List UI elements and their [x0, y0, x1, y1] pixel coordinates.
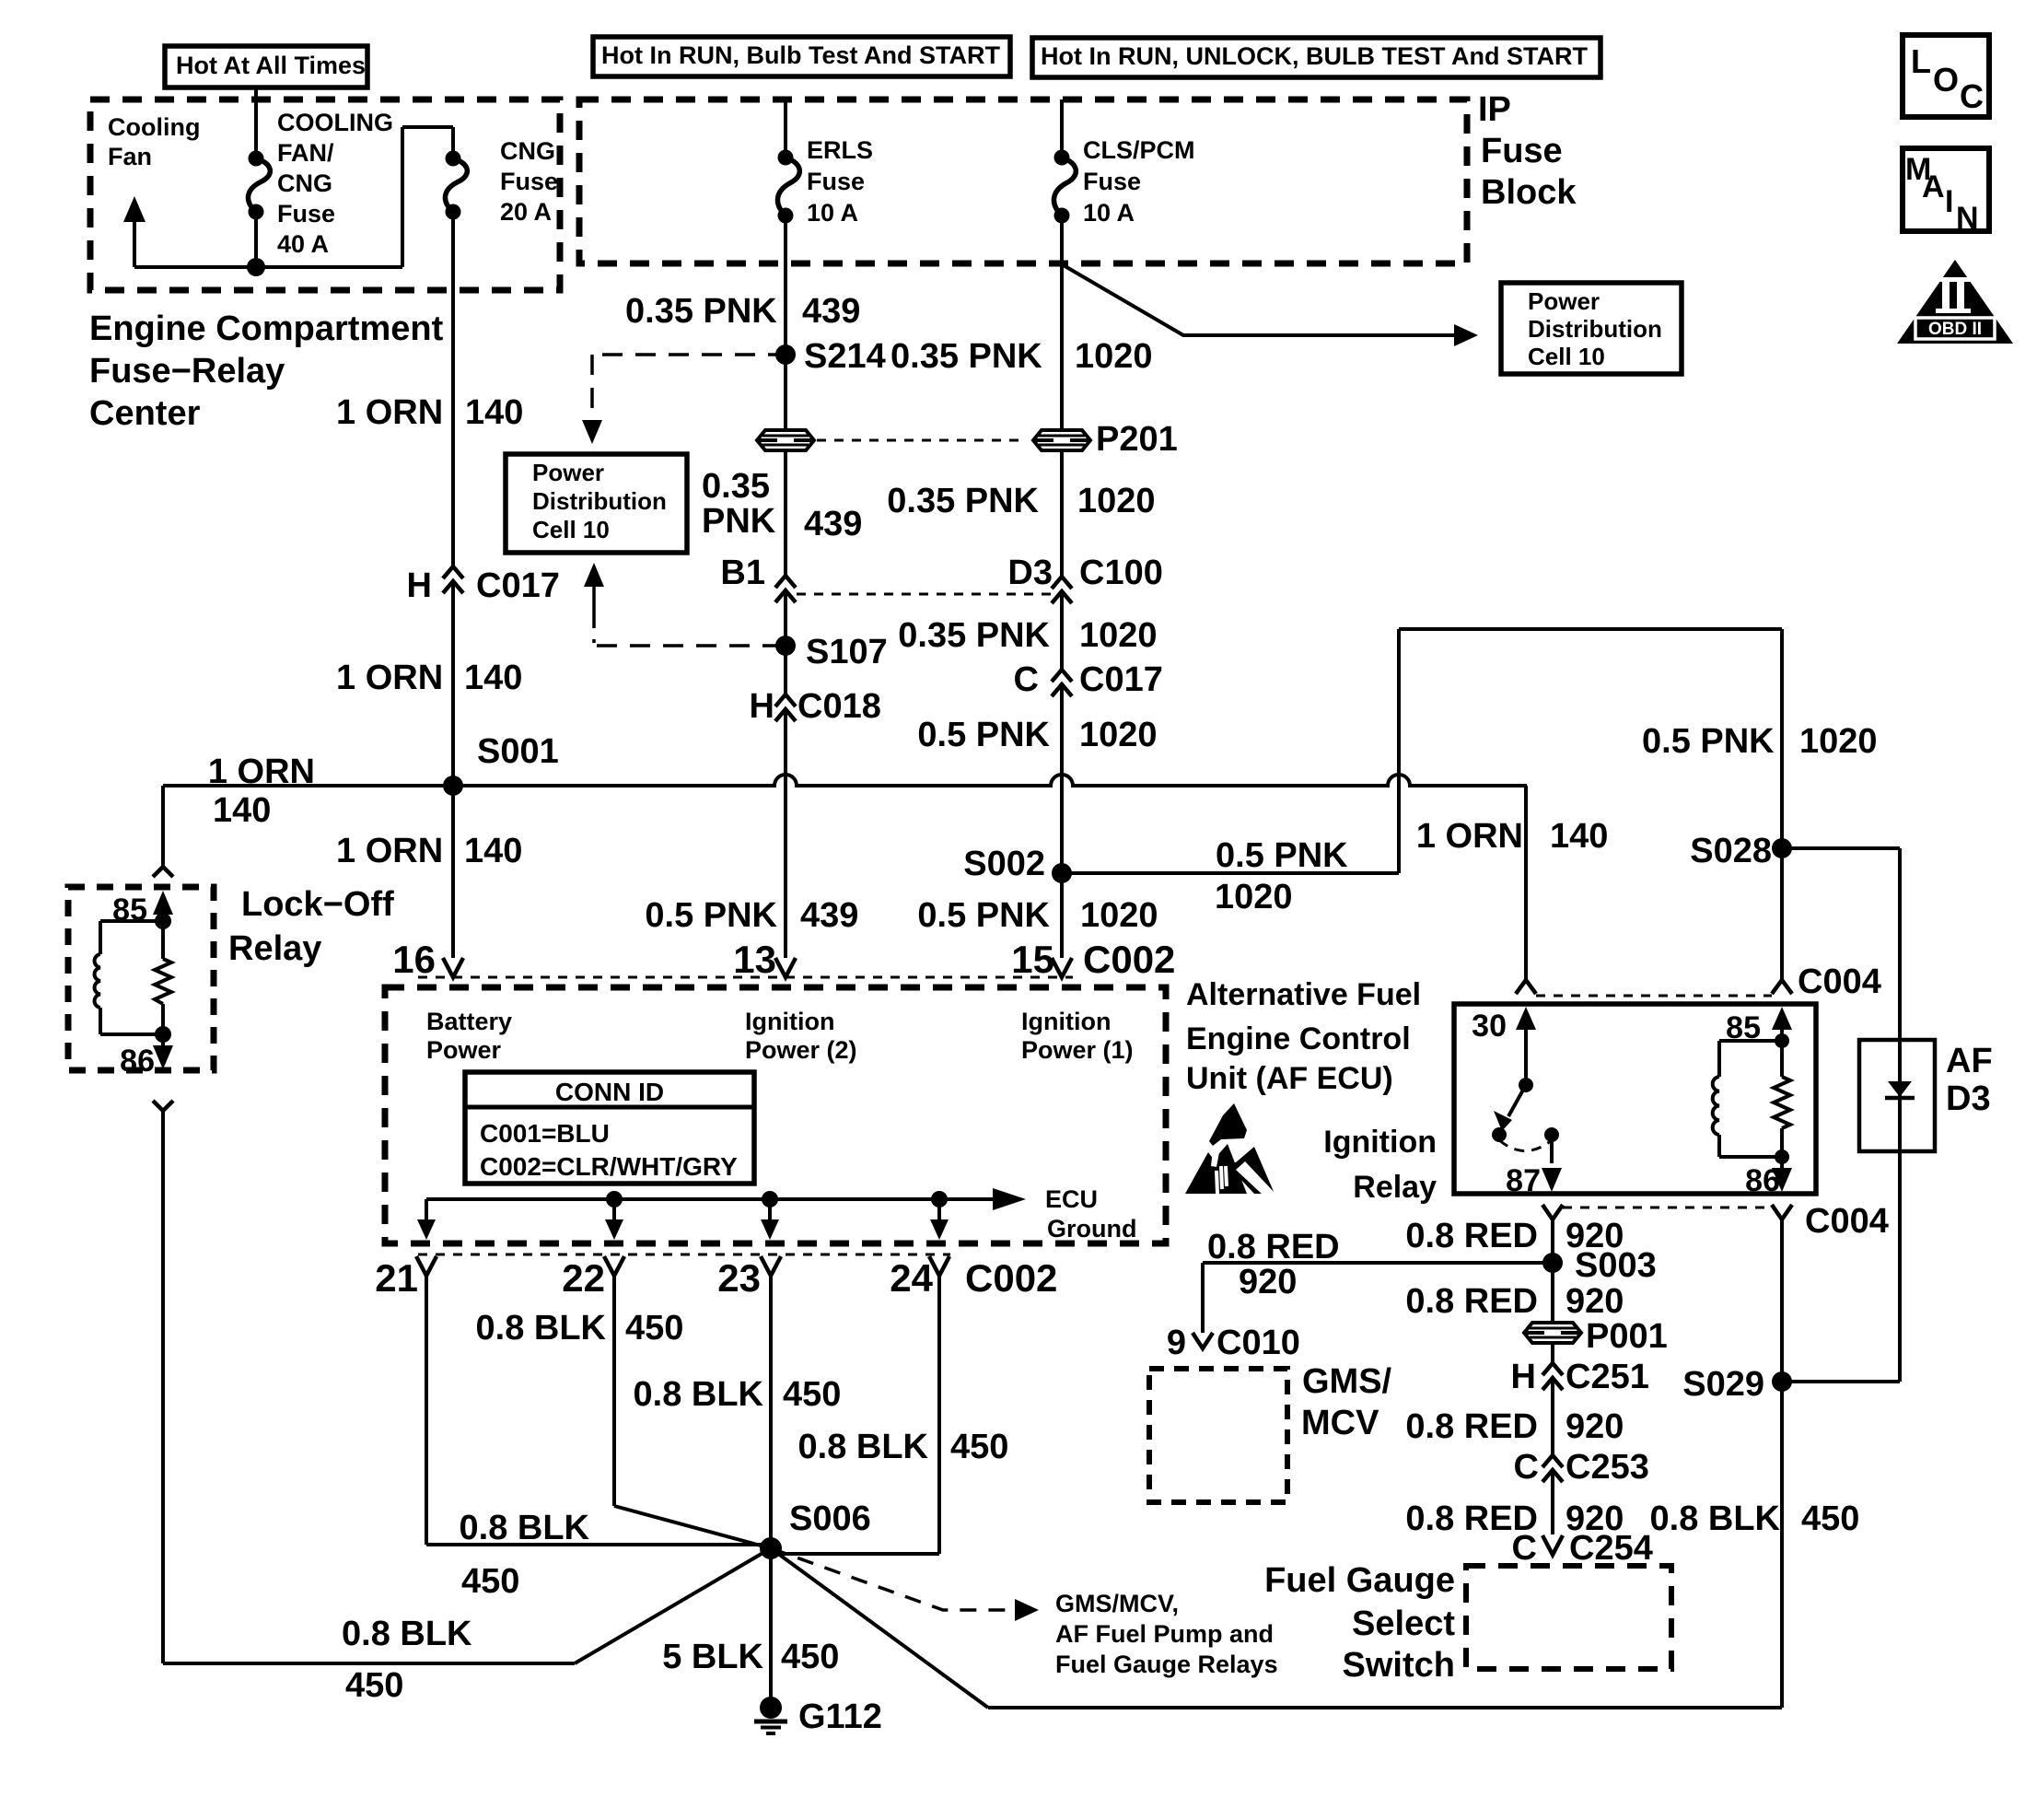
svg-text:P001: P001 [1586, 1317, 1668, 1356]
svg-text:C: C [1514, 1448, 1539, 1487]
svg-text:S002: S002 [963, 845, 1045, 883]
svg-text:Engine Control: Engine Control [1186, 1021, 1411, 1056]
svg-text:Fuse−Relay: Fuse−Relay [89, 352, 285, 391]
svg-text:H: H [750, 687, 774, 726]
svg-text:140: 140 [213, 791, 271, 830]
svg-text:Ignition: Ignition [1323, 1125, 1437, 1160]
svg-text:Fuse: Fuse [277, 200, 335, 227]
svg-text:16: 16 [392, 938, 436, 981]
svg-text:CNG: CNG [277, 169, 332, 197]
svg-text:C004: C004 [1798, 962, 1881, 1001]
svg-text:Fuel Gauge Relays: Fuel Gauge Relays [1055, 1651, 1278, 1678]
svg-text:ERLS: ERLS [807, 136, 873, 164]
svg-text:450: 450 [345, 1666, 403, 1705]
svg-text:Cell 10: Cell 10 [1528, 343, 1605, 370]
svg-text:Distribution: Distribution [532, 487, 667, 515]
svg-text:450: 450 [950, 1428, 1008, 1466]
svg-text:140: 140 [465, 393, 523, 432]
svg-text:Fuse: Fuse [500, 168, 558, 195]
svg-text:C: C [1512, 1529, 1537, 1568]
svg-text:Ignition: Ignition [1021, 1008, 1111, 1035]
svg-text:S107: S107 [806, 633, 888, 671]
svg-text:C100: C100 [1079, 554, 1163, 592]
svg-text:ECU: ECU [1045, 1185, 1098, 1213]
svg-text:MCV: MCV [1301, 1404, 1379, 1442]
svg-text:C017: C017 [1079, 660, 1163, 699]
svg-text:0.8 BLK: 0.8 BLK [798, 1428, 929, 1466]
svg-text:140: 140 [464, 659, 522, 697]
svg-text:15: 15 [1011, 938, 1054, 981]
svg-text:10 A: 10 A [807, 199, 858, 227]
svg-text:140: 140 [464, 832, 522, 870]
svg-text:140: 140 [1550, 817, 1608, 856]
svg-text:13: 13 [733, 938, 776, 981]
svg-text:S028: S028 [1690, 832, 1772, 870]
svg-text:Fuse: Fuse [1481, 132, 1563, 170]
svg-text:Cooling: Cooling [108, 113, 200, 141]
svg-text:C002: C002 [965, 1256, 1057, 1300]
svg-text:Fuse: Fuse [807, 168, 865, 195]
svg-text:1020: 1020 [1075, 337, 1153, 376]
svg-text:30: 30 [1472, 1009, 1507, 1044]
svg-text:Relay: Relay [1353, 1170, 1437, 1205]
svg-text:C254: C254 [1569, 1529, 1653, 1568]
svg-text:0.35 PNK: 0.35 PNK [625, 292, 777, 331]
svg-text:87: 87 [1506, 1163, 1541, 1198]
svg-text:24: 24 [890, 1256, 933, 1300]
svg-text:0.8 RED: 0.8 RED [1405, 1407, 1538, 1446]
svg-text:1020: 1020 [1079, 716, 1158, 754]
svg-text:920: 920 [1566, 1407, 1624, 1446]
svg-text:0.35 PNK: 0.35 PNK [887, 482, 1039, 520]
svg-text:1 ORN: 1 ORN [336, 393, 443, 432]
svg-text:1 ORN: 1 ORN [336, 832, 443, 870]
svg-text:1020: 1020 [1077, 482, 1156, 520]
svg-text:Block: Block [1481, 173, 1577, 212]
svg-text:439: 439 [804, 505, 862, 543]
svg-text:COOLING: COOLING [277, 109, 393, 136]
svg-text:IP: IP [1478, 90, 1511, 129]
svg-text:20 A: 20 A [500, 198, 552, 226]
svg-text:Fuel Gauge: Fuel Gauge [1264, 1561, 1455, 1600]
svg-text:Fuse: Fuse [1083, 168, 1141, 195]
svg-text:Center: Center [89, 394, 201, 433]
svg-text:0.8 BLK: 0.8 BLK [1650, 1499, 1781, 1538]
svg-text:21: 21 [375, 1256, 418, 1300]
svg-text:H: H [407, 566, 432, 605]
svg-text:0.5 PNK: 0.5 PNK [645, 896, 777, 935]
svg-text:S029: S029 [1682, 1365, 1764, 1404]
svg-text:22: 22 [562, 1256, 605, 1300]
svg-text:D3: D3 [1007, 554, 1053, 592]
svg-text:C: C [1014, 660, 1039, 699]
svg-text:1020: 1020 [1079, 616, 1158, 655]
svg-text:Unit (AF ECU): Unit (AF ECU) [1186, 1061, 1393, 1096]
svg-text:0.8 BLK: 0.8 BLK [634, 1375, 764, 1414]
svg-text:C010: C010 [1216, 1324, 1300, 1362]
svg-text:1020: 1020 [1799, 722, 1878, 761]
svg-text:0.8 RED: 0.8 RED [1207, 1228, 1340, 1266]
svg-text:450: 450 [781, 1638, 839, 1676]
svg-text:C001=BLU: C001=BLU [480, 1119, 610, 1148]
svg-text:23: 23 [717, 1256, 761, 1300]
svg-text:86: 86 [120, 1044, 155, 1079]
svg-text:439: 439 [800, 896, 858, 935]
svg-text:450: 450 [1801, 1499, 1859, 1538]
svg-text:N: N [1956, 201, 1979, 236]
svg-text:AF: AF [1946, 1042, 1993, 1080]
svg-text:5 BLK: 5 BLK [662, 1638, 763, 1676]
svg-text:40 A: 40 A [277, 230, 329, 258]
svg-text:G112: G112 [798, 1697, 882, 1736]
svg-text:1 ORN: 1 ORN [336, 659, 443, 697]
svg-text:Power: Power [532, 459, 604, 486]
svg-text:GMS/MCV,: GMS/MCV, [1055, 1590, 1179, 1617]
svg-text:0.8 BLK: 0.8 BLK [342, 1615, 472, 1653]
svg-text:Hot In RUN, Bulb Test And STAR: Hot In RUN, Bulb Test And START [601, 41, 1000, 69]
svg-text:450: 450 [625, 1309, 683, 1347]
svg-text:O: O [1933, 61, 1959, 99]
svg-text:Cell 10: Cell 10 [532, 516, 610, 543]
svg-text:CONN ID: CONN ID [555, 1078, 664, 1106]
svg-text:0.8 BLK: 0.8 BLK [476, 1309, 607, 1347]
svg-text:Battery: Battery [426, 1008, 512, 1035]
svg-text:Ground: Ground [1047, 1215, 1136, 1242]
svg-text:1 ORN: 1 ORN [1416, 817, 1523, 856]
svg-text:0.35 PNK: 0.35 PNK [890, 337, 1042, 376]
svg-text:C004: C004 [1805, 1202, 1889, 1241]
svg-text:85: 85 [112, 892, 147, 927]
svg-text:Lock−Off: Lock−Off [241, 885, 394, 924]
svg-text:S214: S214 [804, 337, 886, 376]
svg-text:920: 920 [1239, 1263, 1297, 1301]
svg-text:Power: Power [1528, 287, 1600, 315]
svg-text:PNK: PNK [702, 502, 776, 541]
svg-text:Alternative Fuel: Alternative Fuel [1186, 977, 1421, 1012]
svg-text:Hot At All Times: Hot At All Times [176, 52, 366, 79]
svg-text:D3: D3 [1946, 1079, 1991, 1118]
svg-text:B1: B1 [720, 554, 765, 592]
svg-text:C: C [1960, 77, 1984, 115]
svg-text:Relay: Relay [228, 929, 321, 968]
svg-text:0.35 PNK: 0.35 PNK [898, 616, 1050, 655]
svg-text:1020: 1020 [1080, 896, 1158, 935]
svg-text:0.8 RED: 0.8 RED [1405, 1217, 1538, 1255]
svg-text:0.5 PNK: 0.5 PNK [917, 716, 1050, 754]
svg-text:450: 450 [783, 1375, 841, 1414]
svg-text:H: H [1511, 1358, 1536, 1396]
svg-text:1020: 1020 [1215, 878, 1293, 916]
svg-text:450: 450 [461, 1562, 519, 1601]
svg-text:920: 920 [1566, 1282, 1624, 1321]
svg-text:C002: C002 [1083, 938, 1175, 981]
svg-text:Ignition: Ignition [745, 1008, 834, 1035]
svg-text:CNG: CNG [500, 137, 555, 165]
svg-text:9: 9 [1167, 1324, 1186, 1362]
svg-text:FAN/: FAN/ [277, 139, 334, 167]
svg-text:C251: C251 [1566, 1358, 1649, 1396]
svg-text:C017: C017 [476, 566, 560, 605]
svg-text:Distribution: Distribution [1528, 315, 1662, 343]
svg-text:Fan: Fan [108, 143, 152, 170]
svg-text:L: L [1911, 42, 1931, 80]
svg-text:Power (1): Power (1) [1021, 1036, 1134, 1064]
svg-text:C018: C018 [797, 687, 881, 726]
svg-text:OBD II: OBD II [1928, 320, 1982, 339]
svg-text:Power: Power [426, 1036, 502, 1064]
svg-text:I: I [1945, 184, 1953, 219]
svg-text:0.8 RED: 0.8 RED [1405, 1282, 1538, 1321]
svg-text:0.5 PNK: 0.5 PNK [917, 896, 1050, 935]
svg-text:Switch: Switch [1343, 1646, 1455, 1685]
svg-text:10 A: 10 A [1083, 199, 1135, 227]
svg-text:0.35: 0.35 [702, 467, 770, 506]
svg-text:1 ORN: 1 ORN [208, 752, 315, 791]
svg-text:0.8 BLK: 0.8 BLK [460, 1509, 590, 1547]
svg-text:0.5 PNK: 0.5 PNK [1642, 722, 1775, 761]
svg-text:S001: S001 [477, 732, 559, 771]
svg-text:Power (2): Power (2) [745, 1036, 857, 1064]
svg-text:AF Fuel Pump and: AF Fuel Pump and [1055, 1620, 1274, 1648]
svg-text:S006: S006 [789, 1499, 871, 1538]
svg-text:P201: P201 [1096, 420, 1178, 459]
svg-text:86: 86 [1745, 1163, 1780, 1198]
svg-text:C253: C253 [1566, 1448, 1649, 1487]
svg-text:Select: Select [1352, 1604, 1455, 1643]
svg-text:Hot In RUN, UNLOCK, BULB TEST: Hot In RUN, UNLOCK, BULB TEST And START [1041, 42, 1588, 70]
svg-text:439: 439 [802, 292, 860, 331]
svg-text:GMS/: GMS/ [1302, 1362, 1392, 1401]
svg-text:S003: S003 [1575, 1246, 1657, 1285]
svg-text:0.5 PNK: 0.5 PNK [1216, 836, 1348, 875]
svg-text:A: A [1922, 169, 1945, 204]
svg-text:C002=CLR/WHT/GRY: C002=CLR/WHT/GRY [480, 1152, 738, 1181]
svg-text:CLS/PCM: CLS/PCM [1083, 136, 1195, 164]
svg-text:85: 85 [1726, 1010, 1761, 1045]
svg-text:Engine Compartment: Engine Compartment [89, 309, 444, 348]
